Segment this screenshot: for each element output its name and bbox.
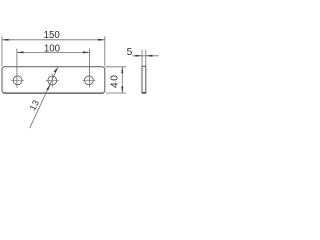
svg-text:100: 100 [44,44,61,55]
svg-text:150: 150 [44,30,61,41]
svg-text:5: 5 [127,47,133,58]
svg-text:40: 40 [110,73,121,88]
